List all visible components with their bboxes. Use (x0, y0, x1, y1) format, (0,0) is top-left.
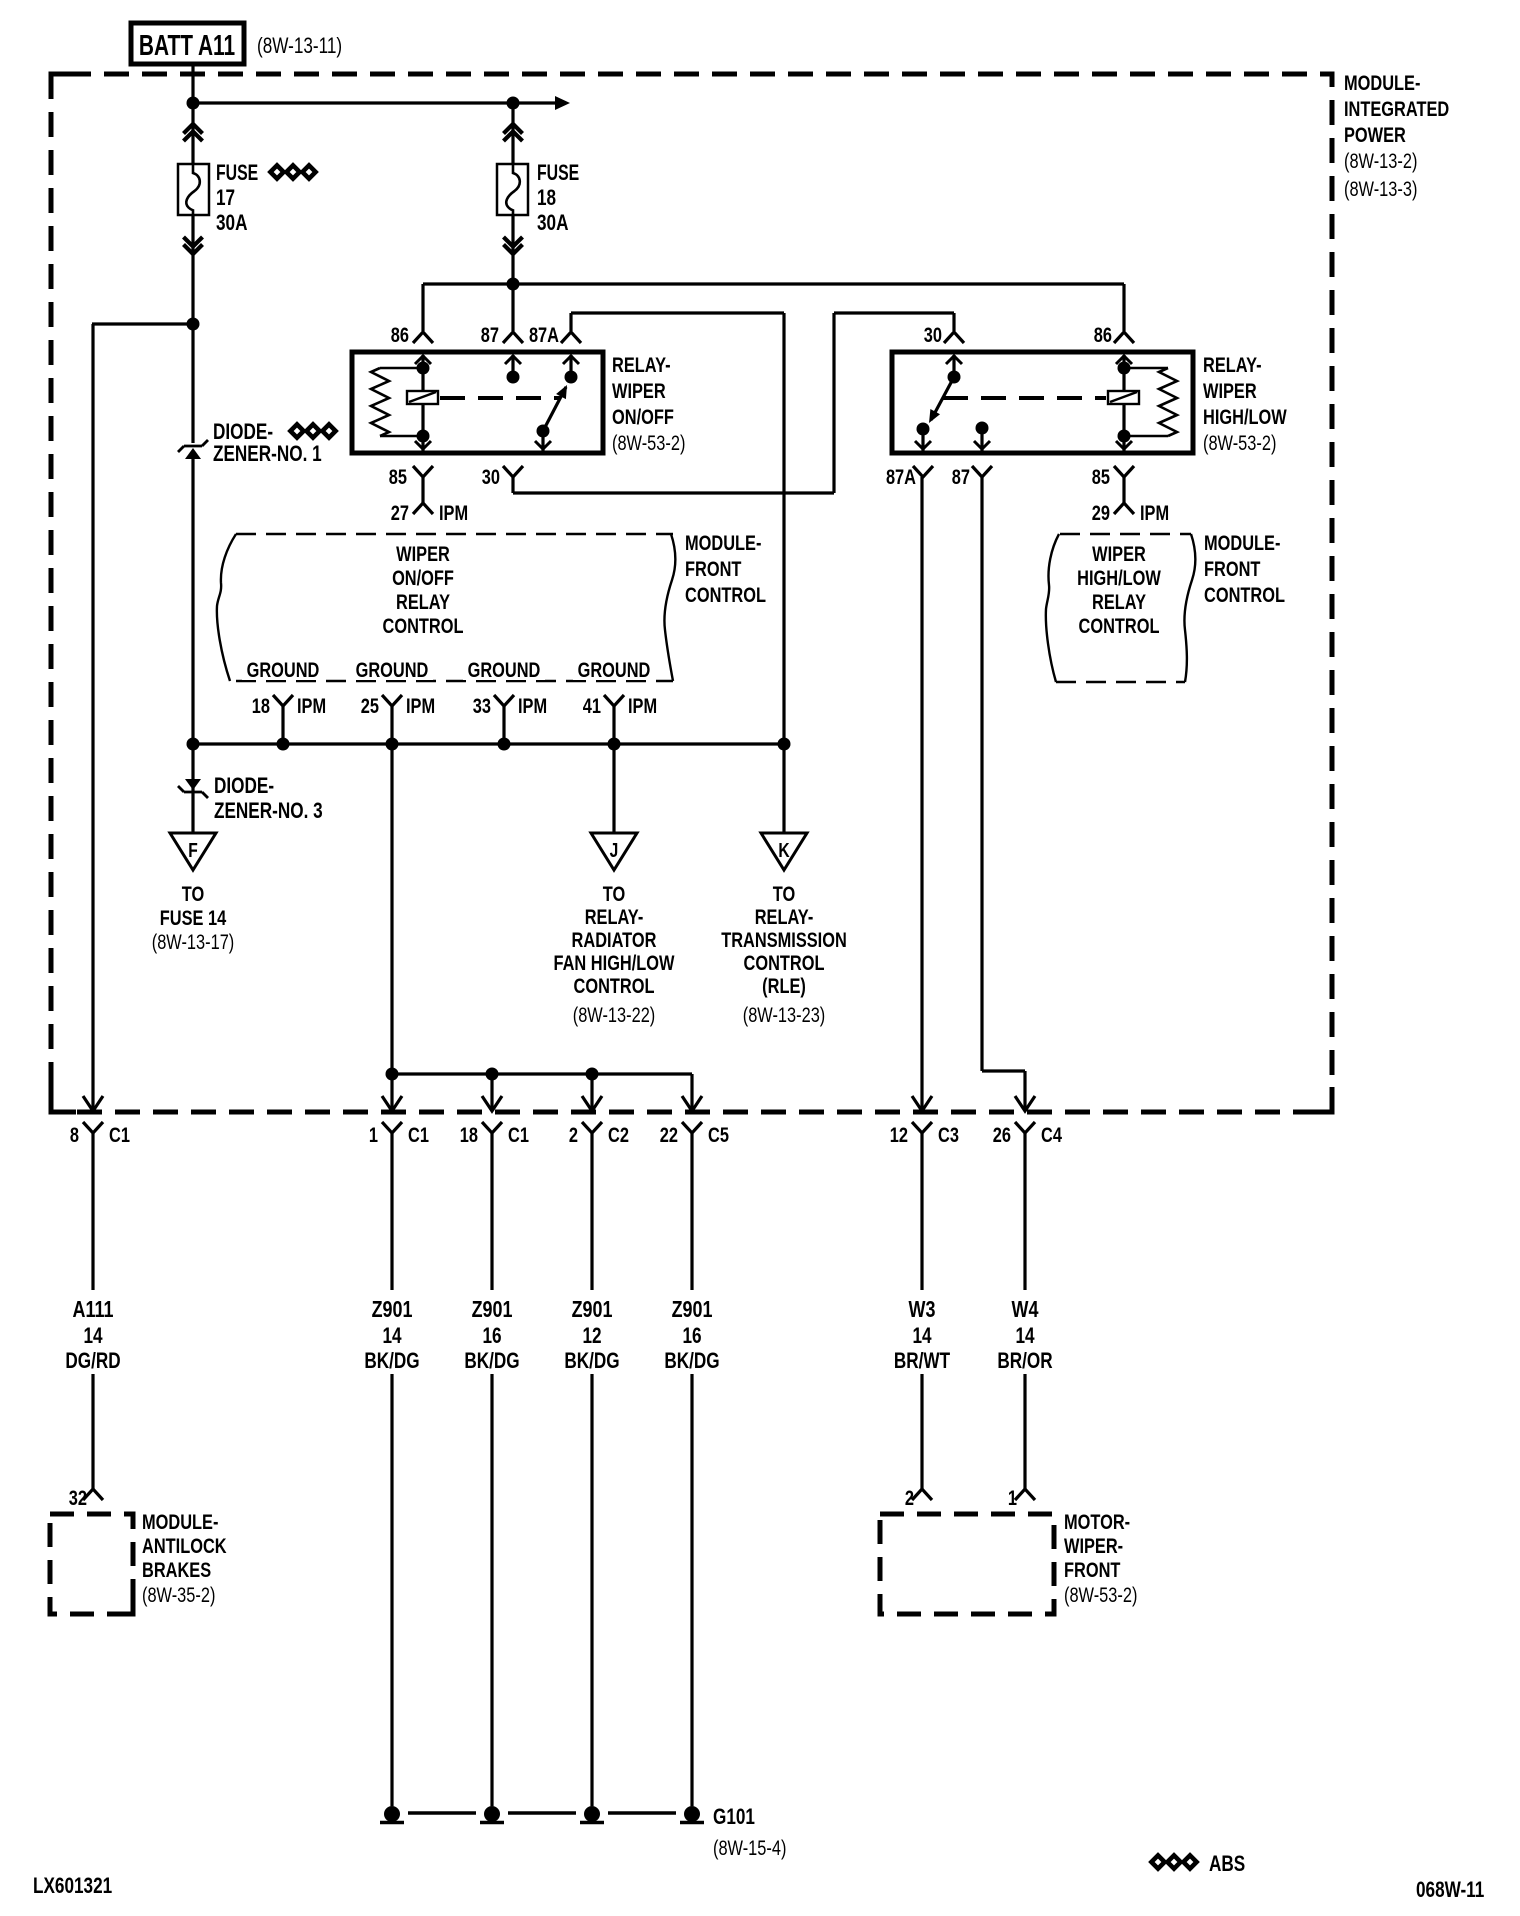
node ground bus x=283 (277, 738, 290, 751)
wire relay2 87 to connector C4 pin 26 (980, 477, 983, 1071)
svg-text:C2: C2 (608, 1123, 629, 1146)
inline connector chevrons below fuse 17 (184, 245, 203, 255)
node ground bus x=193 (187, 738, 200, 751)
IPM pin 18 connector (273, 695, 293, 706)
relay1 resistor (371, 368, 389, 436)
svg-text:WIPER: WIPER (1092, 542, 1146, 565)
pin 86 connector (relay2) (1114, 332, 1134, 343)
svg-text:ON/OFF: ON/OFF (612, 405, 674, 428)
svg-text:DIODE-: DIODE- (213, 420, 273, 445)
ground bus wire (193, 742, 784, 745)
wire IPM pin 33 to ground bus (502, 706, 505, 744)
exit arrow at connector C5 pin 22 (682, 1096, 702, 1111)
svg-text:C1: C1 (109, 1123, 130, 1146)
wire splice to fuse 18 feed (193, 101, 556, 104)
svg-text:BK/DG: BK/DG (364, 1349, 419, 1374)
svg-text:MODULE-: MODULE- (1204, 531, 1280, 554)
pin 87 connector (relay2) (972, 466, 992, 477)
svg-text:POWER: POWER (1344, 123, 1406, 146)
off-page connector F (170, 833, 216, 870)
diamonds note marker (diode 1) (290, 424, 303, 437)
svg-text:FUSE 14: FUSE 14 (160, 906, 227, 929)
relay2 switch armature (931, 377, 954, 420)
IPM pin 27 connector (413, 503, 433, 514)
wire branch left (92, 322, 193, 325)
exit arrow at connector C1 pin 18 (482, 1096, 502, 1111)
exit arrow at connector C3 pin 12 (912, 1096, 932, 1111)
wire W4 14 BR/OR (upper) (1023, 1133, 1026, 1290)
svg-text:(8W-13-17): (8W-13-17) (152, 930, 235, 953)
svg-text:TO: TO (182, 882, 204, 905)
svg-text:IPM: IPM (518, 694, 547, 717)
svg-text:BK/DG: BK/DG (564, 1349, 619, 1374)
svg-text:WIPER: WIPER (396, 542, 450, 565)
connector C3 pin 12 (912, 1122, 932, 1133)
diamonds note marker (fuse 17) (270, 165, 283, 178)
motor-wiper-front box (880, 1514, 1054, 1614)
diode DIODE-ZENER-NO.3 (185, 779, 201, 790)
svg-text:ZENER-NO. 1: ZENER-NO. 1 (213, 442, 322, 467)
svg-text:12: 12 (582, 1324, 601, 1349)
svg-text:CONTROL: CONTROL (383, 614, 464, 637)
svg-text:RELAY-: RELAY- (612, 353, 671, 376)
svg-text:33: 33 (473, 694, 491, 717)
wire to fuse 18 (511, 103, 514, 164)
wire A111 14 DG/RD (upper) (91, 1133, 94, 1290)
svg-text:BK/DG: BK/DG (664, 1349, 719, 1374)
connector C1 pin 18 (482, 1122, 502, 1133)
svg-text:2: 2 (569, 1123, 578, 1146)
module-front control block 1 (wiper on/off relay control) (236, 533, 673, 535)
connector C1 pin 1 (382, 1122, 402, 1133)
inline connector chevrons below fuse 18 (504, 245, 523, 255)
inline connector chevrons above fuse 18 (504, 124, 523, 134)
node branch to C1 pin 8 (187, 318, 200, 331)
connector C1 pin 8 (83, 1122, 103, 1133)
svg-text:87A: 87A (529, 323, 559, 346)
svg-text:GROUND: GROUND (247, 658, 320, 681)
wire Z901 14 BK/DG (lower) (390, 1374, 393, 1806)
svg-text:BR/WT: BR/WT (894, 1349, 950, 1374)
wire W3 14 BR/WT (lower) (920, 1374, 923, 1489)
svg-text:27: 27 (391, 501, 409, 524)
wire down to relay2 pin 86 (1122, 284, 1125, 331)
svg-text:GROUND: GROUND (468, 658, 541, 681)
wire relay1 30 to relay2 30 (511, 477, 514, 493)
wire rail to connector C2 pin 2 (590, 1074, 593, 1111)
svg-text:14: 14 (1015, 1324, 1034, 1349)
svg-text:IPM: IPM (297, 694, 326, 717)
svg-text:IPM: IPM (628, 694, 657, 717)
exit arrow at connector C1 pin 1 (382, 1096, 402, 1111)
module-front control block 2 (wiper high/low relay control) (1060, 533, 1191, 535)
svg-text:(8W-53-2): (8W-53-2) (1203, 431, 1276, 454)
svg-text:WIPER: WIPER (612, 379, 666, 402)
svg-text:85: 85 (1092, 465, 1110, 488)
node ground bus x=614 (608, 738, 621, 751)
svg-text:RELAY-: RELAY- (585, 905, 644, 928)
svg-text:BK/DG: BK/DG (464, 1349, 519, 1374)
wire rail to connector C1 pin 18 (490, 1074, 493, 1111)
svg-text:8: 8 (70, 1123, 79, 1146)
relay1 coil feed pin 86 internal (415, 356, 431, 364)
wire W4 14 BR/OR (lower) (1023, 1374, 1026, 1489)
wire diode-zener no.1 to ground bus (191, 459, 194, 744)
boundary corner marks (51, 74, 76, 99)
svg-text:30: 30 (482, 465, 500, 488)
svg-text:FAN HIGH/LOW: FAN HIGH/LOW (554, 951, 675, 974)
svg-text:ON/OFF: ON/OFF (392, 566, 454, 589)
svg-text:C1: C1 (408, 1123, 429, 1146)
ground G101 point x=392 (384, 1806, 400, 1822)
svg-text:(8W-15-4): (8W-15-4) (713, 1836, 786, 1859)
diode DIODE-ZENER-NO.1 (185, 448, 201, 459)
arrow continuation right (555, 96, 570, 110)
module-antilock brakes box (50, 1514, 133, 1614)
wire pin 85 to IPM pin 27 (421, 477, 424, 503)
svg-text:41: 41 (583, 694, 601, 717)
wire Z901 16 BK/DG (upper) (690, 1133, 693, 1290)
svg-text:(8W-35-2): (8W-35-2) (142, 1583, 215, 1606)
diamonds note marker (ABS) (1151, 1855, 1164, 1868)
connector C2 pin 2 (582, 1122, 602, 1133)
svg-text:Z901: Z901 (572, 1297, 613, 1323)
svg-text:IPM: IPM (1140, 501, 1169, 524)
svg-text:ABS: ABS (1209, 1852, 1245, 1877)
svg-text:G101: G101 (713, 1805, 755, 1830)
svg-text:30: 30 (924, 323, 942, 346)
pin 85 connector (relay1) (413, 466, 433, 477)
svg-text:(8W-13-23): (8W-13-23) (743, 1003, 826, 1026)
label GROUND (pin 25) (351, 659, 433, 680)
svg-text:IPM: IPM (406, 694, 435, 717)
svg-text:Z901: Z901 (372, 1297, 413, 1323)
svg-text:RELAY-: RELAY- (755, 905, 814, 928)
node rail x=492 (486, 1068, 499, 1081)
svg-text:RADIATOR: RADIATOR (572, 928, 657, 951)
label GROUND (pin 18) (242, 659, 324, 680)
svg-text:85: 85 (389, 465, 407, 488)
wire ground link 2 (508, 1811, 576, 1814)
off-page connector J (591, 833, 637, 870)
svg-text:BATT A11: BATT A11 (139, 30, 235, 62)
wire BATT A11 to splice (191, 64, 194, 103)
ground G101 point x=592 (584, 1806, 600, 1822)
antilock module pin 32 connector (83, 1489, 103, 1500)
wire rail to connector C5 pin 22 (690, 1074, 693, 1111)
svg-text:RELAY: RELAY (1092, 590, 1146, 613)
pin 30 connector (relay2) (944, 332, 964, 343)
svg-text:068W-11: 068W-11 (1416, 1878, 1484, 1903)
wire splice to diode-zener no.1 (191, 324, 194, 443)
svg-text:FUSE: FUSE (537, 162, 579, 186)
svg-text:18: 18 (460, 1123, 478, 1146)
relay U1 RELAY-WIPER ON/OFF box (352, 352, 603, 453)
module-integrated power boundary (dashed) (51, 74, 1332, 1112)
svg-text:12: 12 (890, 1123, 908, 1146)
off-page connector K (761, 833, 807, 870)
battery feed box BATT A11 (131, 23, 244, 64)
relay2 resistor (1159, 368, 1177, 436)
svg-text:WIPER: WIPER (1203, 379, 1257, 402)
svg-text:TRANSMISSION: TRANSMISSION (721, 928, 847, 951)
svg-text:DG/RD: DG/RD (65, 1349, 120, 1374)
svg-text:(8W-13-22): (8W-13-22) (573, 1003, 656, 1026)
svg-text:87A: 87A (886, 465, 916, 488)
svg-text:ZENER-NO. 3: ZENER-NO. 3 (214, 799, 323, 824)
svg-text:14: 14 (382, 1324, 401, 1349)
svg-text:C5: C5 (708, 1123, 729, 1146)
pin 87A connector (relay1) (561, 332, 581, 343)
node fuse 18 splice (507, 278, 520, 291)
svg-text:30A: 30A (216, 211, 247, 236)
node ground bus x=504 (498, 738, 511, 751)
svg-text:CONTROL: CONTROL (1079, 614, 1160, 637)
connector C4 pin 26 (1015, 1122, 1035, 1133)
svg-text:FUSE: FUSE (216, 162, 258, 186)
wire fuse 17 to splice (191, 215, 194, 324)
svg-text:GROUND: GROUND (578, 658, 651, 681)
wire W3 14 BR/WT (upper) (920, 1133, 923, 1290)
IPM pin 29 connector (1114, 503, 1134, 514)
wire Z901 12 BK/DG (lower) (590, 1374, 593, 1806)
wire splice to relay coils 86 (423, 282, 1124, 285)
relay2 pin 87 internal stub (976, 422, 989, 435)
wire IPM pin 41 to ground bus (612, 706, 615, 744)
node rail x=592 (586, 1068, 599, 1081)
wire Z901 16 BK/DG (lower) (490, 1374, 493, 1806)
relay2 coil to pin 85 internal (1122, 436, 1125, 451)
pin 87 connector (relay1) (503, 332, 523, 343)
svg-text:16: 16 (682, 1324, 701, 1349)
svg-text:26: 26 (993, 1123, 1011, 1146)
svg-text:RELAY-: RELAY- (1203, 353, 1262, 376)
svg-text:18: 18 (252, 694, 270, 717)
fuse 17 (30A) (178, 164, 209, 215)
relay1 coil (407, 391, 438, 404)
svg-text:FRONT: FRONT (685, 557, 742, 580)
svg-text:BR/OR: BR/OR (997, 1349, 1052, 1374)
svg-text:CONTROL: CONTROL (1204, 583, 1285, 606)
relay2 coil feed pin 86 internal (1116, 356, 1132, 364)
svg-text:(RLE): (RLE) (762, 974, 806, 997)
pin 86 connector (relay1) (413, 332, 433, 343)
svg-text:TO: TO (603, 882, 625, 905)
label GROUND (pin 41) (573, 659, 655, 680)
wiper motor pin 1 connector (1015, 1489, 1035, 1500)
svg-text:25: 25 (361, 694, 379, 717)
wire relay1 87A to K-branch (569, 313, 572, 331)
relay1 pin 87 internal stub (505, 356, 521, 364)
wire ground bus to F via diode-zener no.3 (191, 744, 194, 833)
inline connector chevrons above fuse 17 (184, 124, 203, 134)
svg-text:86: 86 (1094, 323, 1112, 346)
svg-text:MODULE-: MODULE- (685, 531, 761, 554)
node ground bus x=784 (778, 738, 791, 751)
svg-text:18: 18 (537, 186, 556, 211)
svg-text:(8W-13-11): (8W-13-11) (257, 34, 342, 59)
wire Z901 16 BK/DG (upper) (490, 1133, 493, 1290)
relay1 coil to pin 85 internal (421, 436, 424, 451)
svg-text:87: 87 (952, 465, 970, 488)
IPM pin 41 connector (604, 695, 624, 706)
svg-text:LX601321: LX601321 (33, 1874, 112, 1899)
node splice at fuse 18 feed (507, 97, 520, 110)
pin 30 connector (relay1) (503, 466, 523, 477)
svg-text:GROUND: GROUND (356, 658, 429, 681)
relay2 coil (1108, 391, 1139, 404)
wire Z901 16 BK/DG (lower) (690, 1374, 693, 1806)
svg-text:MOTOR-: MOTOR- (1064, 1510, 1130, 1533)
relay1 coil-armature dashed link (440, 396, 560, 400)
svg-text:IPM: IPM (439, 501, 468, 524)
svg-text:C1: C1 (508, 1123, 529, 1146)
svg-text:WIPER-: WIPER- (1064, 1534, 1123, 1557)
svg-text:16: 16 (482, 1324, 501, 1349)
svg-text:Z901: Z901 (472, 1297, 513, 1323)
junction rail wire (392, 1072, 692, 1075)
wire IPM pin 18 to ground bus (281, 706, 284, 744)
relay1 pin 87A internal stub (563, 356, 579, 364)
svg-text:HIGH/LOW: HIGH/LOW (1077, 566, 1161, 589)
svg-text:14: 14 (912, 1324, 931, 1349)
wire rail to connector C1 pin 1 (390, 1074, 393, 1111)
wire Z901 14 BK/DG (upper) (390, 1133, 393, 1290)
svg-text:CONTROL: CONTROL (574, 974, 655, 997)
svg-text:17: 17 (216, 186, 235, 211)
svg-text:A111: A111 (73, 1297, 114, 1323)
IPM pin 33 connector (494, 695, 514, 706)
relay2 coil-armature dashed link (943, 396, 1106, 400)
wire IPM pin 25 to ground bus (390, 706, 393, 744)
wire ground bus to J (612, 744, 615, 833)
exit arrow at connector C2 pin 2 (582, 1096, 602, 1111)
node ground bus x=392 (386, 738, 399, 751)
svg-text:W3: W3 (909, 1297, 936, 1323)
node rail x=392 (386, 1068, 399, 1081)
antilock box corner mark (108, 1589, 133, 1614)
wire ground link 3 (608, 1811, 676, 1814)
svg-text:MODULE-: MODULE- (142, 1510, 218, 1533)
svg-text:87: 87 (481, 323, 499, 346)
exit arrow at connector C4 pin 26 (1015, 1096, 1035, 1111)
wire pin 85 to IPM pin 29 (1122, 477, 1125, 503)
fuse 18 (30A) (497, 164, 528, 215)
svg-text:(8W-13-2): (8W-13-2) (1344, 149, 1417, 172)
relay2 pin 30 internal stub (946, 356, 962, 364)
connector C5 pin 22 (682, 1122, 702, 1133)
svg-text:ANTILOCK: ANTILOCK (142, 1534, 227, 1557)
svg-text:(8W-13-3): (8W-13-3) (1344, 177, 1417, 200)
svg-text:14: 14 (83, 1324, 102, 1349)
svg-text:Z901: Z901 (672, 1297, 713, 1323)
svg-text:FRONT: FRONT (1204, 557, 1261, 580)
wire A111 14 DG/RD (lower) (91, 1374, 94, 1489)
svg-text:C3: C3 (938, 1123, 959, 1146)
svg-text:J: J (610, 839, 619, 861)
node splice at fuse 17 feed (187, 97, 200, 110)
relay1 switch armature (543, 387, 566, 431)
svg-text:CONTROL: CONTROL (744, 951, 825, 974)
wire to fuse 17 (191, 103, 194, 164)
svg-text:30A: 30A (537, 211, 568, 236)
svg-text:MODULE-: MODULE- (1344, 71, 1420, 94)
svg-text:HIGH/LOW: HIGH/LOW (1203, 405, 1287, 428)
wiper motor pin 2 connector (912, 1489, 932, 1500)
IPM pin 25 connector (382, 695, 402, 706)
wire down to relay1 pin 86 (421, 284, 424, 331)
wire ground link 1 (408, 1811, 476, 1814)
wire ground bus to junction rail (390, 744, 393, 1074)
pin 87A connector (relay2) (913, 466, 933, 477)
svg-text:RELAY: RELAY (396, 590, 450, 613)
svg-text:FRONT: FRONT (1064, 1558, 1121, 1581)
svg-text:(8W-53-2): (8W-53-2) (612, 431, 685, 454)
label GROUND (pin 33) (463, 659, 545, 680)
wire fuse 18 to relay pin 87 (511, 215, 514, 331)
wire relay2 87A to connector C3 pin 12 (920, 477, 923, 1111)
svg-text:22: 22 (660, 1123, 678, 1146)
svg-text:DIODE-: DIODE- (214, 774, 274, 799)
pin 85 connector (relay2) (1114, 466, 1134, 477)
svg-text:C4: C4 (1041, 1123, 1062, 1146)
svg-text:86: 86 (391, 323, 409, 346)
relay U2 RELAY-WIPER HIGH/LOW box (892, 352, 1193, 453)
wire ground bus to K (782, 744, 785, 833)
svg-text:INTEGRATED: INTEGRATED (1344, 97, 1449, 120)
svg-text:29: 29 (1092, 501, 1110, 524)
svg-text:1: 1 (369, 1123, 378, 1146)
svg-text:TO: TO (773, 882, 795, 905)
svg-text:BRAKES: BRAKES (142, 1558, 211, 1581)
svg-text:K: K (778, 839, 789, 861)
svg-text:(8W-53-2): (8W-53-2) (1064, 1583, 1137, 1606)
ground G101 point x=692 (684, 1806, 700, 1822)
wire down to connector C1 pin 8 (91, 324, 94, 1111)
wire Z901 12 BK/DG (upper) (590, 1133, 593, 1290)
ground G101 point x=492 (484, 1806, 500, 1822)
svg-text:F: F (188, 839, 198, 861)
svg-text:CONTROL: CONTROL (685, 583, 766, 606)
exit arrow at connector C1 pin 8 (83, 1096, 103, 1111)
svg-text:W4: W4 (1012, 1297, 1039, 1323)
